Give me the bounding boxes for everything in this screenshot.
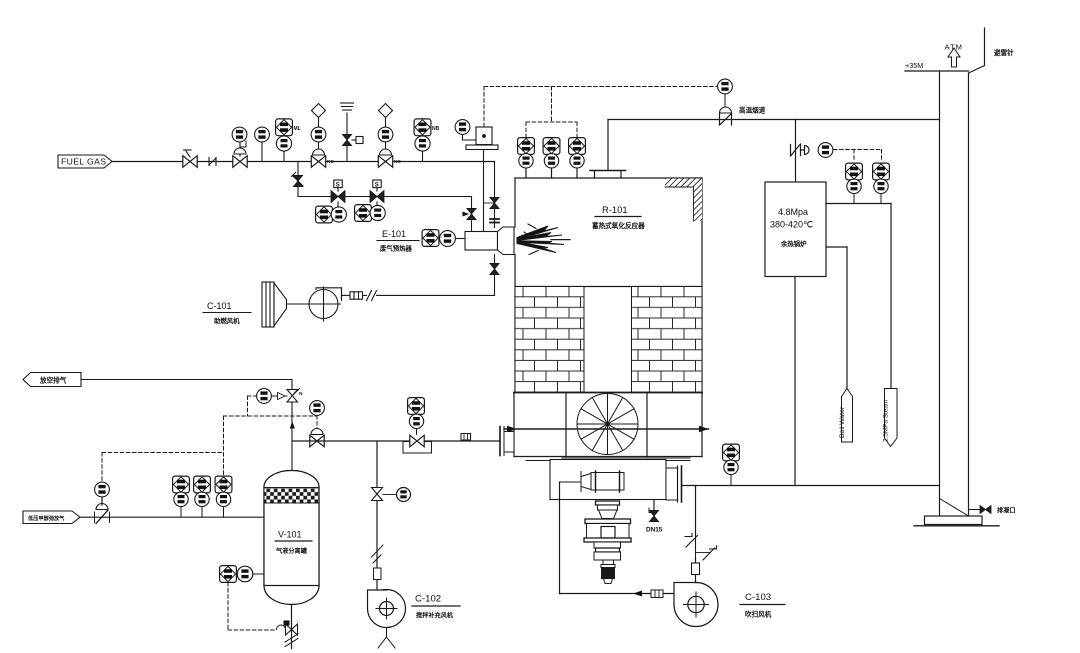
wire flue gas riser from reactor xyxy=(607,120,609,171)
stack foundation xyxy=(914,516,999,526)
label C-101 xyxy=(203,301,251,325)
relief vent branch with vent stack xyxy=(341,103,364,162)
support legs of C-102 xyxy=(378,628,395,649)
instrument stack steam 2 xyxy=(873,163,890,203)
valve combustion air damper xyxy=(490,263,499,274)
wire steam line down xyxy=(890,204,892,389)
wire dashed level control loop xyxy=(228,583,274,631)
valve DN15 drain on hopper xyxy=(646,500,663,534)
fitting flex joint on fuel gas line xyxy=(209,158,216,166)
fitting flex connector on air line xyxy=(363,291,381,301)
instrument stack A on methanol line xyxy=(173,476,190,517)
instrument bubble PC inlet xyxy=(95,482,110,497)
instrument bubble igniter controller xyxy=(455,120,476,140)
fitting silencer on C-102 riser xyxy=(374,568,382,580)
instrument stack B on methanol line xyxy=(194,476,211,517)
instrument PIC above control valve xyxy=(232,127,247,142)
wire V-101 bottom drain xyxy=(291,605,293,649)
burner flame inside reactor xyxy=(517,224,570,255)
igniter box on reactor xyxy=(466,127,498,150)
valve stack drain xyxy=(969,506,992,514)
svg-text:ML: ML xyxy=(294,126,301,132)
wire combustion air line xyxy=(342,294,351,296)
hopper below plenum xyxy=(550,458,690,500)
instrument PT square stack right xyxy=(414,119,440,162)
svg-text:V-101: V-101 xyxy=(278,530,302,540)
svg-text:气液分离罐: 气液分离罐 xyxy=(275,547,308,555)
wire air line to burner xyxy=(380,294,495,296)
svg-text:蓄热式氧化反应器: 蓄热式氧化反应器 xyxy=(592,221,645,230)
node FUEL GAS inlet banner xyxy=(58,155,112,168)
instrument pair below solenoid B xyxy=(355,205,386,222)
instrument stack 2 above reactor xyxy=(543,138,560,178)
svg-text:C-101: C-101 xyxy=(207,301,232,311)
valve check valves on C-103 riser xyxy=(685,534,717,561)
flow element with transmitter on feed line xyxy=(403,398,432,453)
wire igniter rod into burner xyxy=(483,150,485,232)
refractory brick bed left xyxy=(515,287,584,393)
wire reactor purge header to stack xyxy=(682,485,940,487)
instrument bubble on C-102 riser xyxy=(397,488,411,502)
valve hand valve on fuel gas line xyxy=(183,150,197,167)
instrument stack steam 1 xyxy=(846,163,863,203)
wire reactor feed line xyxy=(292,440,500,442)
valve bottom drain control valve xyxy=(277,621,299,647)
stack chimney xyxy=(905,71,969,516)
svg-text:DN15: DN15 xyxy=(646,527,663,534)
svg-text:余热锅炉: 余热锅炉 xyxy=(780,239,807,248)
label E-101 xyxy=(377,229,419,253)
svg-text:C-103: C-103 xyxy=(745,592,771,603)
valve boiler inlet damper xyxy=(791,144,810,156)
rotary distributor fan in plenum xyxy=(577,394,638,455)
wire dashed signal lines V-101 overhead xyxy=(102,396,317,482)
wire flue gas header to stack xyxy=(608,119,940,121)
control valve PV to reactor feed xyxy=(310,429,324,447)
rotary feeder cylinder inside hopper xyxy=(581,471,624,492)
wire fuel gas drop to burner xyxy=(494,162,496,228)
instrument LG level gauge pair xyxy=(220,566,264,583)
wire dashed signal to steam instruments xyxy=(834,150,882,162)
fitting flex break on C-102 riser xyxy=(372,545,384,563)
label V-101 xyxy=(275,530,312,556)
valve vent control valve on riser xyxy=(287,389,303,403)
instrument bubble boiler inlet xyxy=(818,143,833,158)
instrument PI on fuel gas line xyxy=(255,127,270,161)
instrument bubble PC vent xyxy=(257,389,287,404)
valve branch isolation valve to low pressure train xyxy=(292,162,304,197)
instrument pair below solenoid A xyxy=(316,206,347,223)
node 2.5MPa Steam banner xyxy=(883,389,898,447)
svg-text:380-420℃: 380-420℃ xyxy=(770,220,813,230)
lightning rod on stack xyxy=(969,28,985,73)
control valve PV with actuator on fuel gas line xyxy=(233,141,247,167)
symbol flow arrow on riser xyxy=(290,422,295,429)
instrument bubble E-101 xyxy=(440,231,465,247)
nozzle feed inlet left of plenum xyxy=(500,427,514,456)
solenoid valve A on gas train xyxy=(331,180,345,207)
svg-text:E-101: E-101 xyxy=(382,229,406,239)
svg-text:C-102: C-102 xyxy=(415,594,441,605)
svg-text:+35M: +35M xyxy=(905,61,923,70)
reactor R-101 shell xyxy=(515,178,702,457)
instrument bubble NC valve 1 xyxy=(311,127,326,142)
fitting silencer on purge line xyxy=(651,590,663,598)
nozzle flue outlet on R-101 top xyxy=(590,171,626,179)
wire C-102 branch riser xyxy=(376,441,378,590)
instrument bubble PV feed controller xyxy=(310,401,325,416)
wire fuel gas main header xyxy=(112,161,495,163)
svg-text:排凝口: 排凝口 xyxy=(997,507,1016,515)
discharge assembly below hopper xyxy=(584,501,631,584)
node methanol purge gas inlet banner xyxy=(23,511,80,524)
wire dashed signal lines above reactor xyxy=(484,87,717,138)
label C-102 xyxy=(412,594,460,620)
reactor lower plenum box xyxy=(514,393,702,461)
nozzle purge outlet right of hopper xyxy=(666,466,682,502)
wire boiler inlet drop xyxy=(795,120,797,183)
instrument square E-101 burner management xyxy=(422,230,439,247)
wire boiler water outlet xyxy=(826,246,847,248)
svg-text:FUEL GAS: FUEL GAS xyxy=(61,157,106,167)
wire air riser to burner bottom xyxy=(494,255,496,296)
fitting silencer on C-103 riser xyxy=(692,563,700,575)
wire low pressure gas train line xyxy=(298,196,472,198)
svg-text:低压甲醇弛放气: 低压甲醇弛放气 xyxy=(27,514,65,522)
valve flue damper with actuator xyxy=(720,107,732,125)
wire boiler downcomer xyxy=(794,277,796,486)
svg-text:助燃风机: 助燃风机 xyxy=(214,316,240,325)
label C-103 xyxy=(740,592,785,619)
wire purge air line from C-103 xyxy=(560,482,675,597)
svg-text:NC: NC xyxy=(394,159,401,164)
valve check valve on C-102 riser xyxy=(372,488,397,501)
symbol vent arrow to atmosphere xyxy=(948,48,960,67)
svg-text:废气预热器: 废气预热器 xyxy=(380,244,413,253)
node Boil Water banner xyxy=(839,389,853,443)
svg-text:避雷针: 避雷针 xyxy=(993,48,1014,57)
fan C-102 blower xyxy=(368,590,406,628)
svg-text:放空排气: 放空排气 xyxy=(39,376,67,385)
wire gas flow path through plenum with arrows xyxy=(504,426,709,433)
instrument bubble NC valve 2 xyxy=(378,127,393,142)
control valve NC shutoff valve 1 with solenoid diamond xyxy=(311,104,334,168)
solenoid valve B on gas train xyxy=(370,180,384,206)
label R-101 xyxy=(592,204,645,230)
fitting silencer on air line xyxy=(350,292,363,299)
valve pilot gas valve with flow arrow xyxy=(463,208,477,219)
fan C-103 purge blower xyxy=(674,583,718,627)
wire C-103 suction riser xyxy=(695,486,697,535)
wire boiler steam outlet top xyxy=(826,203,891,205)
vessel V-101 separator xyxy=(264,471,319,605)
boiler 4.8Mpa waste heat boiler xyxy=(765,182,826,277)
wire vent header from V-101 xyxy=(81,379,292,381)
svg-text:NB: NB xyxy=(432,126,440,132)
wire gas train drop to burner xyxy=(471,197,473,232)
wire V-101 overhead riser xyxy=(291,380,293,470)
instrument stack 1 above reactor xyxy=(518,138,535,178)
node vent banner top left of V-101 xyxy=(23,373,81,387)
instrument stack on purge header xyxy=(723,444,740,485)
fitting orifice on burner gas drop xyxy=(490,219,499,223)
fitting orifice on feed line xyxy=(461,434,471,441)
svg-text:R-101: R-101 xyxy=(602,204,628,215)
refractory brick bed right xyxy=(632,287,703,393)
instrument bubble flue damper controller xyxy=(718,79,733,106)
valve burner gas isolation xyxy=(490,197,499,208)
wire boil water line down xyxy=(846,247,848,389)
fan C-101 blower xyxy=(307,287,342,321)
svg-text:NC: NC xyxy=(327,159,334,164)
svg-text:N: N xyxy=(299,391,303,396)
instrument PT square with transmitter bubble xyxy=(276,119,301,162)
svg-text:搅拌补充风机: 搅拌补充风机 xyxy=(416,612,454,620)
filter intake of C-101 xyxy=(262,282,309,327)
wire jog igniter to gas drop xyxy=(484,202,495,204)
svg-text:高温烟道: 高温烟道 xyxy=(739,106,766,115)
svg-text:吹扫风机: 吹扫风机 xyxy=(745,610,772,619)
control valve NC shutoff valve 2 with solenoid diamond xyxy=(378,104,401,168)
burner E-101 body xyxy=(465,227,514,255)
instrument stack C on methanol line xyxy=(215,476,232,517)
valve inlet valve with actuator xyxy=(95,497,110,524)
svg-text:2.5MPa Steam: 2.5MPa Steam xyxy=(883,400,890,442)
wire methanol feed line to V-101 xyxy=(80,516,264,518)
svg-text:Boil Water: Boil Water xyxy=(839,406,846,438)
insulation hatch top right corner of R-101 xyxy=(665,179,702,222)
instrument stack 3 above reactor xyxy=(569,138,586,178)
svg-text:4.8Mpa: 4.8Mpa xyxy=(778,207,808,217)
